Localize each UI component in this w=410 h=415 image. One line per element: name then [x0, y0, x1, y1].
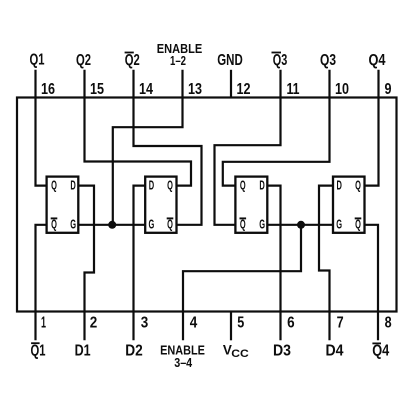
junction node G1-2	[108, 221, 116, 229]
svg-text:Q1: Q1	[31, 343, 46, 360]
svg-text:G: G	[149, 218, 155, 232]
svg-text:CC: CC	[231, 348, 249, 360]
svg-text:7: 7	[337, 314, 344, 331]
wire pin10 Q3 to U3 Q	[223, 70, 330, 186]
wire pin8 Q4-bar to U4 Q-bar	[365, 225, 379, 340]
wire U4 D to pin7 D4	[319, 186, 333, 341]
svg-text:D1: D1	[75, 343, 91, 360]
svg-text:Q3: Q3	[320, 52, 336, 69]
svg-text:Q: Q	[240, 218, 246, 232]
overbar of Q2-bar (pin 14)	[125, 52, 134, 54]
svg-text:D3: D3	[273, 343, 291, 360]
svg-text:5: 5	[237, 314, 244, 331]
latch U1 body	[47, 177, 79, 233]
overbar of Q1-bar (pin 1)	[31, 342, 39, 344]
svg-text:D2: D2	[125, 343, 143, 360]
wire pin14 Q2-bar to U2 Q-bar	[134, 70, 202, 225]
svg-text:Q4: Q4	[372, 343, 389, 360]
svg-text:D4: D4	[326, 343, 344, 360]
svg-text:1: 1	[41, 314, 46, 331]
wire U3 D to pin6 D3	[267, 186, 280, 341]
svg-text:D: D	[337, 179, 342, 193]
wire pin11 Q3-bar to U3 Q-bar	[215, 70, 281, 225]
svg-text:Q4: Q4	[369, 52, 386, 69]
svg-text:3–4: 3–4	[174, 356, 192, 370]
latch U1 overbar of Q-bar	[51, 217, 58, 219]
svg-text:11: 11	[287, 81, 300, 98]
wire pin4 ENABLE 3-4 to G node	[183, 225, 301, 340]
svg-text:G: G	[336, 218, 342, 232]
latch U4 overbar of Q-bar	[355, 217, 362, 219]
svg-text:14: 14	[139, 81, 153, 98]
junction node G3-4	[297, 221, 305, 229]
wire G bus U1 to U2	[78, 224, 145, 226]
svg-text:Q2: Q2	[76, 52, 91, 69]
svg-text:D: D	[259, 179, 264, 193]
svg-text:2: 2	[90, 314, 98, 331]
latch U2 overbar of Q-bar	[167, 217, 174, 219]
svg-text:G: G	[70, 218, 76, 232]
wire G bus U3 to U4	[267, 224, 333, 226]
svg-text:16: 16	[41, 81, 55, 98]
svg-text:4: 4	[190, 314, 198, 331]
wire pin3 D2 to U2 D	[134, 186, 146, 341]
svg-text:Q2: Q2	[125, 52, 140, 69]
svg-text:12: 12	[237, 81, 251, 98]
wire pin1 Q1-bar to U1 Q-bar	[36, 225, 47, 340]
wire U1 D to pin2 D1	[78, 186, 94, 341]
latch U3 overbar of Q-bar	[240, 217, 247, 219]
svg-text:9: 9	[385, 81, 392, 98]
svg-text:Q: Q	[240, 179, 246, 193]
svg-text:8: 8	[385, 314, 392, 331]
latch U2 body	[145, 177, 176, 233]
svg-text:D: D	[70, 179, 75, 193]
wire pin9 Q4 to U4 Q	[365, 70, 379, 186]
svg-text:D: D	[149, 179, 154, 193]
svg-text:G: G	[259, 218, 265, 232]
latch U3 body	[235, 177, 267, 233]
latch U4 body	[333, 177, 365, 233]
overbar of Q3-bar (pin 11)	[272, 52, 282, 54]
wire pin16 Q1 to U1 Q	[36, 70, 47, 186]
svg-text:Q: Q	[167, 218, 173, 232]
svg-text:Q1: Q1	[30, 51, 45, 68]
IC package outline	[17, 98, 397, 312]
svg-text:Q: Q	[355, 179, 361, 193]
svg-text:GND: GND	[217, 52, 243, 69]
wire pin13 ENABLE 1-2 to G node	[113, 70, 183, 225]
svg-text:13: 13	[188, 81, 202, 98]
svg-text:15: 15	[90, 81, 104, 98]
wire pin12 GND stub	[230, 70, 232, 98]
svg-text:Q: Q	[51, 179, 57, 193]
svg-text:3: 3	[141, 314, 149, 331]
wire pin15 Q2 to U2 Q	[85, 70, 192, 186]
svg-text:6: 6	[287, 314, 295, 331]
svg-text:1–2: 1–2	[170, 54, 186, 68]
svg-text:Q: Q	[167, 179, 173, 193]
overbar of Q4-bar (pin 8)	[372, 342, 381, 344]
svg-text:10: 10	[335, 81, 349, 98]
wire pin5 VCC stub	[230, 312, 232, 341]
svg-text:Q3: Q3	[273, 52, 288, 69]
svg-text:Q: Q	[51, 218, 57, 232]
svg-text:Q: Q	[355, 218, 361, 232]
